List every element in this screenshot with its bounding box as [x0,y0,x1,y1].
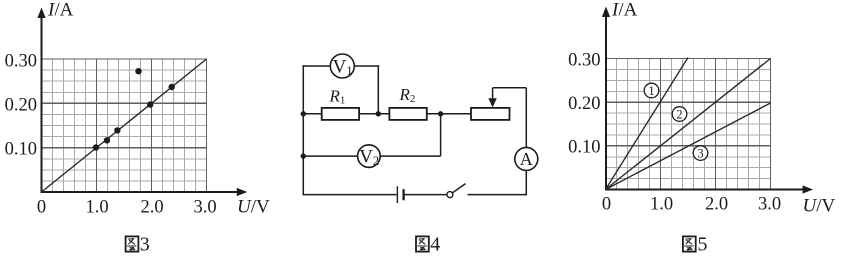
junction node: R1-R2 [376,111,381,116]
svg-text:U/V: U/V [237,197,270,218]
fig3 data point 3 [114,127,120,133]
svg-text:I/A: I/A [47,0,74,21]
fig5 caption 图5 [683,234,708,256]
wire: left vertical bus [302,65,304,195]
svg-text:U/V: U/V [803,196,836,217]
junction node: after R2 [438,111,443,116]
svg-text:3: 3 [697,146,703,160]
fig3 data point 5 [169,84,175,90]
fig5 major grid [606,59,771,190]
svg-text:0: 0 [602,195,611,215]
switch pivot [447,192,453,198]
fig3 x tick labels [37,198,217,218]
svg-text:3: 3 [140,234,150,256]
fig5 y-axis [605,13,607,190]
resistor R2 [389,108,426,120]
fig5 y tick labels [568,50,600,157]
fig3 y-axis [41,14,43,193]
fig5 line 2 [606,59,771,190]
wire: V1 right drop to R1-R2 node [377,65,379,114]
junction node: V2 left [301,153,306,158]
wire: V2 right lead [380,155,440,157]
voltmeter V2 [358,145,381,168]
fig5 x-axis arrowhead [803,185,813,193]
switch lever [453,184,466,193]
svg-text:0.30: 0.30 [5,51,37,71]
fig5 y-axis arrowhead [602,7,610,18]
svg-text:3.0: 3.0 [758,195,781,215]
rheostat body [471,108,510,120]
svg-text:A: A [520,149,533,169]
fig4 caption 图4 [416,234,440,256]
fig3 caption 图3 [126,234,150,256]
svg-text:1: 1 [648,84,654,98]
fig5 curve label circled 1 [644,83,659,98]
fig5 line 3 [606,103,771,190]
wire: V1 to top-right corner [354,65,379,67]
wire: R1 to R2 [359,113,389,115]
fig3 y tick labels [5,51,37,159]
svg-text:0.30: 0.30 [568,50,600,70]
wire: main line left node to R1 [303,113,321,115]
fig3 x-axis [41,191,241,193]
svg-text:1.0: 1.0 [85,198,108,218]
junction node: left-main [301,111,306,116]
wire: switch to ammeter branch [468,194,528,196]
voltmeter V1 [330,54,354,78]
wire: drop to ammeter [525,88,527,148]
ammeter A [515,147,538,170]
fig5 curve label circled 3 [693,146,708,161]
rheostat wiper arrowhead [488,98,496,107]
battery short plate [402,189,404,200]
fig5 x-axis [605,189,806,191]
svg-text:I/A: I/A [611,0,638,21]
fig5 curve label circled 2 [672,107,687,122]
fig5 minor grid [606,59,771,190]
svg-text:2.0: 2.0 [140,198,163,218]
fig3 data point 1 [93,144,99,150]
svg-text:2.0: 2.0 [705,195,728,215]
fig3 outlier data point [135,68,141,74]
fig3 data point 4 [147,101,153,107]
wire: bottom rail to battery [303,194,397,196]
fig5 line 1 [606,58,689,190]
svg-text:0.10: 0.10 [568,138,600,158]
wire: ammeter to bottom rail [525,170,527,195]
svg-text:3.0: 3.0 [193,198,216,218]
wire: V2 left lead [303,155,357,157]
fig3 data point 2 [104,137,110,143]
fig3 fitted line [42,59,207,192]
fig3 minor grid [42,59,207,192]
resistor R1 [322,108,359,120]
svg-text:1.0: 1.0 [650,195,673,215]
wire: battery to switch [405,194,447,196]
wire: R2 to rheostat [427,113,471,115]
svg-text:4: 4 [430,234,440,256]
rheostat wiper stem [492,88,494,100]
fig5 x tick labels [602,195,781,215]
svg-text:5: 5 [698,234,708,256]
svg-text:0.20: 0.20 [568,94,600,114]
svg-text:2: 2 [676,107,682,121]
wire: wiper to top right [493,87,527,89]
svg-text:0.20: 0.20 [5,95,37,115]
fig3 y-axis arrowhead [37,8,45,19]
svg-text:0: 0 [37,198,46,218]
fig3 major grid [42,59,207,192]
wire: V2 riser to main line [440,114,442,156]
battery long plate [396,186,398,203]
fig3 x-axis arrowhead [237,188,247,196]
wire: top-left horizontal to V1 [303,65,331,67]
svg-text:0.10: 0.10 [5,140,37,160]
